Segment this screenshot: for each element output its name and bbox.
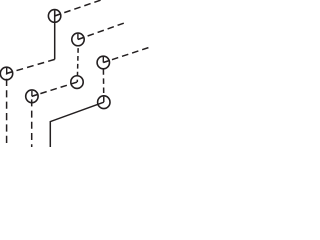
node N4 circle — [0, 67, 12, 80]
node N7 circle — [98, 96, 110, 109]
wire: dashed ray from N3 up-right exiting right edge — [103, 47, 151, 63]
node N6 circle — [71, 76, 83, 89]
node N1 top stub — [54, 10, 56, 16]
wire: dashed ray from N1 up-right exiting top edge — [55, 0, 103, 16]
wire: dashed ray from N2 up-right ending mid-air — [78, 23, 125, 40]
wire: solid ray stub inside N5 — [32, 94, 38, 96]
node N2 top stub — [77, 34, 79, 40]
node N1 circle — [48, 10, 60, 23]
node N3 top stub — [102, 57, 104, 63]
graph diagram: circles (nodes) with dashed/solid elbow connectors — [0, 0, 150, 147]
wire: dashed vertical below N4 to bottom edge — [6, 74, 8, 149]
node N4 top stub — [6, 68, 8, 74]
wire: solid vertical from node N1 down to corner — [54, 10, 56, 59]
node N5 circle — [26, 90, 38, 103]
node N2 circle — [72, 33, 84, 46]
wire: dashed vertical below N5 to bottom edge — [31, 96, 33, 148]
wire: solid ray stub inside N1 — [55, 14, 61, 16]
node N4 ray stub — [7, 72, 13, 74]
wire: dashed diagonal from N6 down-left to N5 — [32, 82, 77, 96]
wire: dashed vertical from N2 down to N6 — [76, 46, 79, 82]
wire: dashed diagonal from corner down-left to node N4 — [7, 59, 55, 73]
wire: solid ray stub inside N3 — [103, 60, 109, 62]
wire: solid ray stub inside N2 — [78, 37, 84, 39]
node N3 circle — [97, 56, 109, 69]
wire: dashed vertical from N3 down to N7 — [102, 69, 104, 102]
node N5 top stub — [31, 91, 33, 97]
wire: solid elbow from N7 down-left then down to bottom edge — [50, 102, 104, 148]
